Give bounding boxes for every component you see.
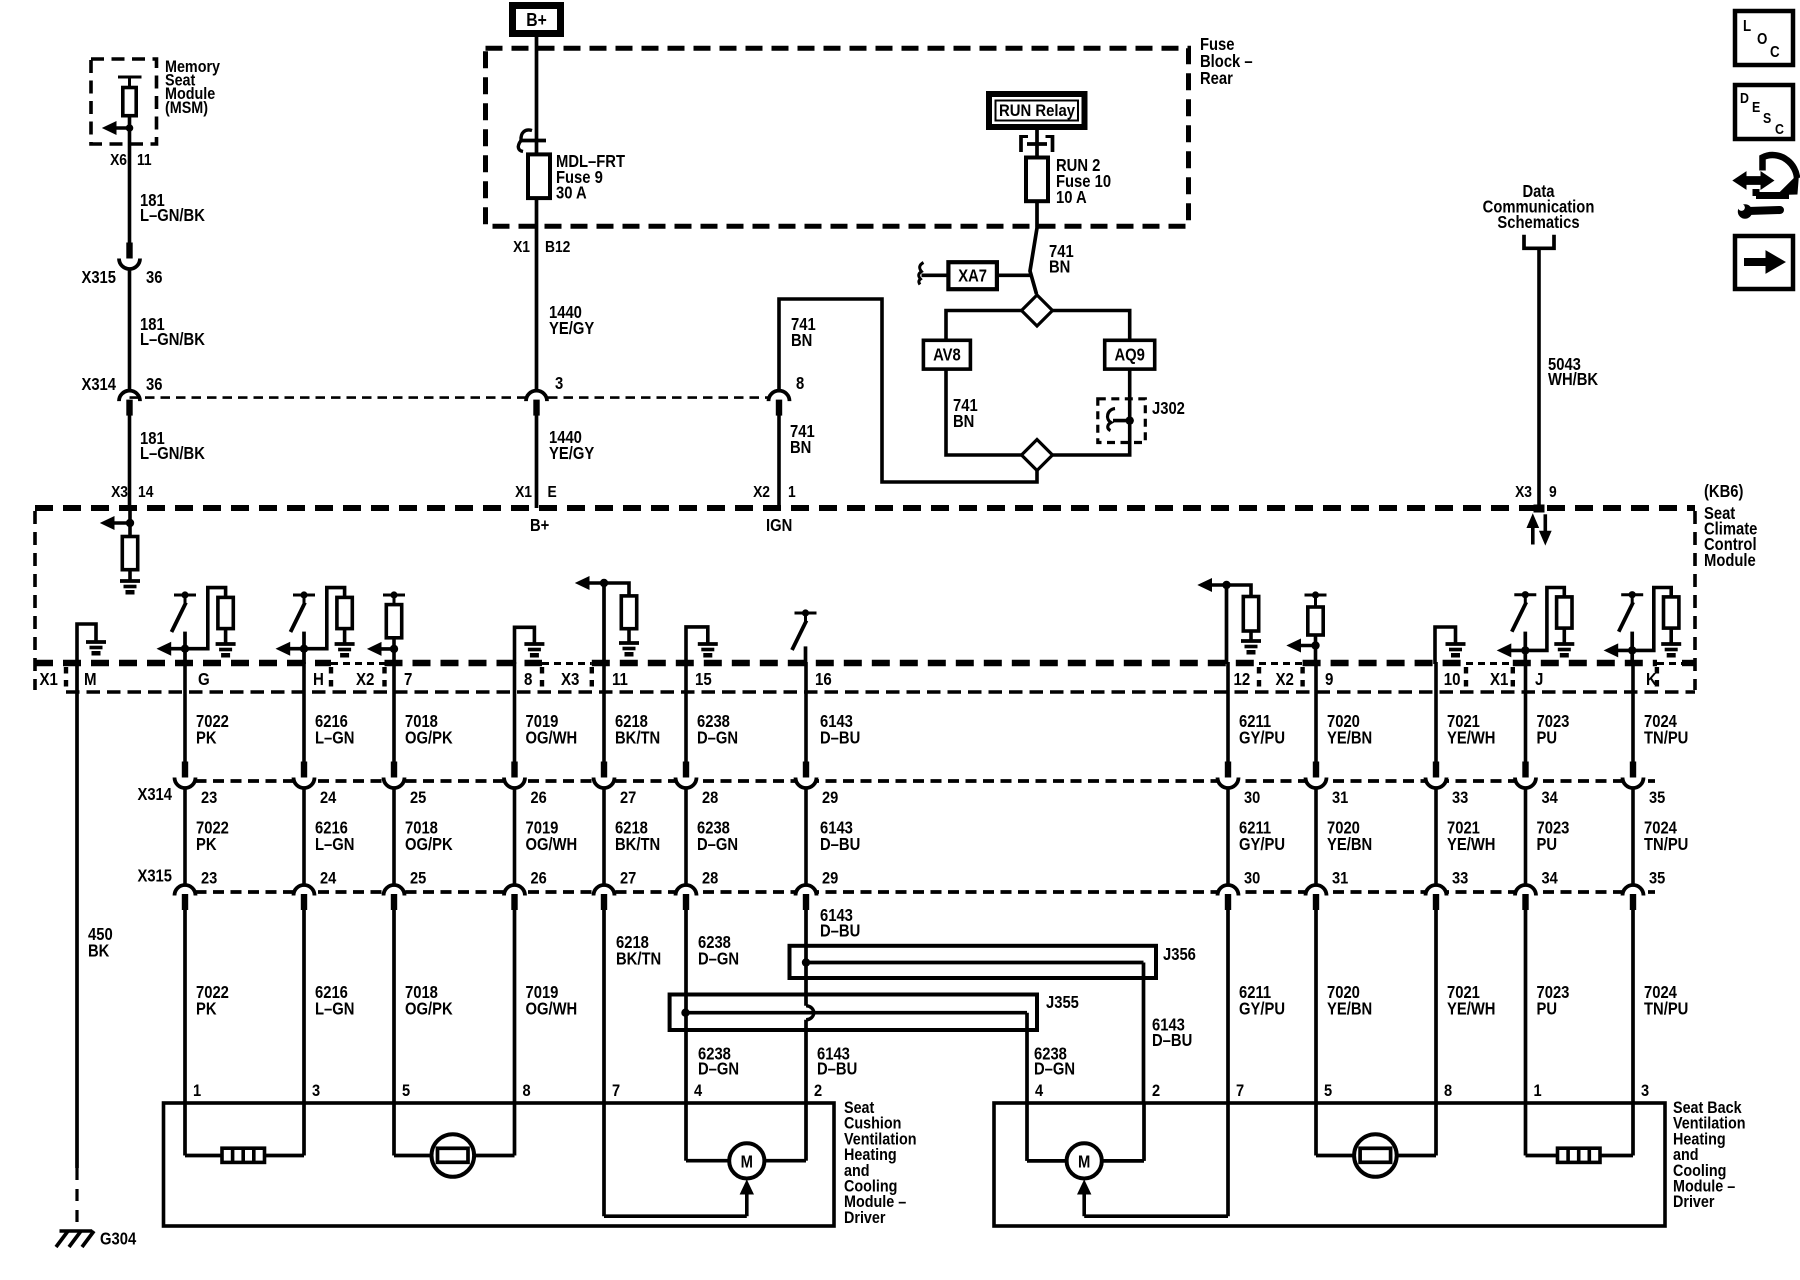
svg-text:7: 7: [612, 1082, 620, 1100]
svg-text:X1: X1: [513, 238, 530, 256]
module internal: memory feed resistor to ground: [128, 508, 132, 537]
svg-text:AV8: AV8: [933, 345, 961, 364]
module internal: pin 7 sense resistor: [383, 594, 405, 597]
connector AQ9: [1105, 340, 1155, 369]
svg-text:2: 2: [814, 1082, 822, 1100]
svg-text:8: 8: [524, 670, 532, 689]
module internal: pin 12 output with resistor: [1225, 585, 1229, 664]
svg-text:X6: X6: [110, 151, 127, 169]
in-line connector pin 8: [769, 391, 790, 402]
wire 7023 PU lower: [1524, 908, 1528, 1103]
svg-text:(KB6): (KB6): [1704, 482, 1743, 501]
svg-text:YE/WH: YE/WH: [1447, 999, 1495, 1018]
svg-text:7: 7: [404, 670, 412, 689]
svg-text:IGN: IGN: [766, 516, 792, 535]
fuse RUN 2 Fuse 10 10 A: [1026, 158, 1048, 202]
svg-text:PU: PU: [1537, 835, 1558, 854]
wire 7023 PU column: [1524, 662, 1528, 762]
svg-text:X2: X2: [753, 483, 770, 501]
Seat Climate Control Module box top edge: [35, 505, 1695, 511]
svg-text:X1: X1: [515, 483, 532, 501]
svg-text:25: 25: [410, 870, 426, 888]
wire 7022 PK column: [183, 662, 187, 762]
module pin band bottom line: [66, 690, 1695, 694]
svg-text:GY/PU: GY/PU: [1239, 999, 1285, 1018]
svg-text:L–GN: L–GN: [315, 835, 354, 854]
seat back temperature sensor: [1314, 1103, 1318, 1156]
svg-text:XA7: XA7: [958, 266, 987, 285]
MSM output arrow: [112, 126, 130, 130]
wire 6211 GY/PU column: [1226, 662, 1230, 762]
module internal: pin 10 ground: [1435, 627, 1456, 664]
cushion heater element: [183, 1103, 187, 1156]
svg-text:OG/WH: OG/WH: [526, 999, 578, 1018]
module internal: pin 15 ground: [686, 627, 708, 664]
wire 7020 YE/BN lower: [1314, 908, 1318, 1103]
svg-text:26: 26: [531, 789, 547, 807]
svg-text:33: 33: [1452, 870, 1468, 888]
svg-text:D: D: [1740, 90, 1749, 106]
svg-text:OG/WH: OG/WH: [526, 728, 578, 747]
svg-text:24: 24: [320, 789, 336, 807]
svg-text:27: 27: [620, 789, 636, 807]
svg-text:E: E: [1752, 99, 1760, 115]
svg-text:E: E: [548, 483, 557, 501]
svg-text:H: H: [313, 670, 324, 689]
option loop left branch wire 741 BN: [946, 311, 1022, 341]
wire 741 BN from fuse 10: [1030, 201, 1037, 294]
svg-text:35: 35: [1649, 789, 1665, 807]
svg-text:14: 14: [138, 483, 154, 501]
svg-text:C: C: [1775, 121, 1784, 137]
relay contact bracket: [1019, 135, 1023, 152]
seat back heater element: [1524, 1103, 1528, 1156]
svg-text:BK/TN: BK/TN: [616, 949, 661, 968]
svg-text:8: 8: [1444, 1082, 1452, 1100]
svg-text:S: S: [1763, 110, 1771, 126]
svg-text:WH/BK: WH/BK: [1548, 370, 1598, 389]
B+ power symbol: [513, 6, 561, 34]
svg-text:X3: X3: [111, 483, 128, 501]
svg-text:OG/PK: OG/PK: [405, 728, 453, 747]
svg-text:PU: PU: [1537, 728, 1558, 747]
svg-text:D–GN: D–GN: [698, 949, 739, 968]
svg-text:BK/TN: BK/TN: [615, 835, 660, 854]
connector X314 pin 23: [182, 762, 188, 779]
connector X314 pin 34: [1522, 762, 1528, 779]
connector AV8: [923, 340, 970, 369]
icon DESC box: [1735, 85, 1793, 139]
svg-text:30: 30: [1244, 789, 1260, 807]
svg-text:PK: PK: [196, 728, 217, 747]
connector X314 pin 33: [1433, 762, 1439, 779]
svg-text:D–GN: D–GN: [697, 835, 738, 854]
svg-text:C: C: [1770, 44, 1780, 61]
svg-text:30: 30: [1244, 870, 1260, 888]
svg-text:36: 36: [146, 268, 163, 287]
svg-text:L–GN/BK: L–GN/BK: [140, 206, 205, 225]
wire 741 BN left branch lower: [946, 369, 1022, 455]
wire 6143 D&#8211;BU column: [804, 662, 808, 762]
svg-text:12: 12: [1234, 670, 1251, 689]
svg-text:YE/WH: YE/WH: [1447, 835, 1495, 854]
seat back motor control wire and arrow: [1226, 1103, 1230, 1216]
svg-text:10 A: 10 A: [1056, 188, 1087, 207]
wire right branch lower: [1053, 369, 1130, 455]
svg-text:31: 31: [1332, 870, 1348, 888]
svg-text:X2: X2: [1276, 670, 1294, 689]
off-page bracket: [1524, 235, 1554, 249]
wire MSM resistor to pin: [128, 116, 132, 157]
svg-text:AQ9: AQ9: [1114, 345, 1144, 364]
svg-text:G: G: [198, 670, 210, 689]
connector X314 pin 25: [391, 762, 397, 779]
MSM internal resistor: [123, 88, 136, 116]
Seat Back Ventilation Heating and Cooling Module box: [994, 1103, 1665, 1226]
svg-text:4: 4: [694, 1082, 702, 1100]
svg-text:1: 1: [1534, 1082, 1542, 1100]
icon forward-nav with wrench: [1733, 155, 1798, 219]
svg-text:X3: X3: [561, 670, 579, 689]
wire 7024 TN/PU lower: [1631, 908, 1635, 1103]
connector X314 pin 28: [683, 762, 689, 779]
serial data arrows: [1531, 525, 1535, 545]
fuse 9 pull tab: [521, 130, 532, 141]
svg-text:J302: J302: [1152, 399, 1185, 418]
svg-text:(MSM): (MSM): [165, 99, 208, 117]
svg-text:OG/PK: OG/PK: [405, 999, 453, 1018]
svg-text:BN: BN: [953, 412, 974, 431]
svg-text:BK/TN: BK/TN: [615, 728, 660, 747]
module internal: pin G switch and resistor: [174, 594, 196, 597]
svg-text:3: 3: [312, 1082, 320, 1100]
svg-text:L–GN: L–GN: [315, 999, 354, 1018]
svg-text:YE/BN: YE/BN: [1327, 999, 1372, 1018]
cushion temperature sensor: [392, 1103, 396, 1156]
connector compartment top lines: [331, 662, 1682, 665]
module box right edge: [1693, 511, 1697, 690]
svg-text:D–BU: D–BU: [820, 728, 860, 747]
svg-text:X2: X2: [356, 670, 374, 689]
cushion motor control wire and arrow: [602, 1103, 606, 1216]
MSM label: [165, 58, 220, 117]
Memory Seat Module (MSM) dashed box: [91, 59, 157, 144]
svg-text:D–BU: D–BU: [1152, 1031, 1192, 1050]
module pin labels: [40, 670, 1658, 689]
svg-text:23: 23: [201, 870, 217, 888]
ground G304: [60, 1229, 93, 1233]
wire 181 L-GN/BK segment 3: [128, 414, 132, 508]
svg-text:27: 27: [620, 870, 636, 888]
svg-text:D–GN: D–GN: [697, 728, 738, 747]
Seat Climate Control Module label: [1704, 504, 1757, 570]
svg-text:Module: Module: [1704, 551, 1756, 570]
wire 181 L-GN/BK segment 2: [128, 269, 132, 391]
svg-text:16: 16: [815, 670, 832, 689]
svg-text:Schematics: Schematics: [1497, 213, 1579, 232]
svg-text:11: 11: [137, 151, 152, 169]
svg-text:X314: X314: [137, 785, 172, 804]
svg-text:25: 25: [410, 789, 426, 807]
svg-text:30 A: 30 A: [556, 183, 587, 202]
svg-text:RUN Relay: RUN Relay: [999, 102, 1075, 120]
Seat Cushion Ventilation Heating and Cooling Module box: [164, 1103, 835, 1226]
svg-text:GY/PU: GY/PU: [1239, 835, 1285, 854]
svg-text:7: 7: [1236, 1082, 1244, 1100]
svg-text:34: 34: [1542, 870, 1558, 888]
Fuse Block - Rear dashed box: [486, 48, 1189, 226]
wire 6211 GY/PU lower: [1226, 908, 1230, 1103]
Seat Back module label: [1673, 1099, 1746, 1211]
svg-text:X1: X1: [1490, 670, 1508, 689]
MSM internal contact bar: [118, 76, 142, 79]
svg-text:15: 15: [695, 670, 712, 689]
svg-text:D–GN: D–GN: [1034, 1059, 1075, 1078]
svg-text:29: 29: [822, 870, 838, 888]
wire 6218 BK/TN lower: [602, 908, 606, 1103]
module internal: pin J switch and resistor: [1514, 593, 1536, 596]
svg-text:G304: G304: [100, 1229, 136, 1248]
connector X314 pin 29: [803, 762, 809, 779]
seat back blower motor: [1025, 1103, 1029, 1161]
module box bottom edge: [35, 660, 1695, 666]
svg-text:Driver: Driver: [1673, 1193, 1714, 1211]
svg-text:23: 23: [201, 789, 217, 807]
svg-text:YE/GY: YE/GY: [549, 319, 594, 338]
svg-text:2: 2: [1152, 1082, 1160, 1100]
wire 6218 BK/TN column: [602, 662, 606, 762]
wire 7021 YE/WH lower: [1434, 908, 1438, 1103]
svg-text:34: 34: [1542, 789, 1558, 807]
svg-text:PK: PK: [196, 835, 217, 854]
svg-text:4: 4: [1035, 1082, 1043, 1100]
svg-text:28: 28: [702, 870, 718, 888]
svg-text:9: 9: [1549, 483, 1557, 501]
svg-text:OG/WH: OG/WH: [526, 835, 578, 854]
svg-text:31: 31: [1332, 789, 1348, 807]
svg-text:Rear: Rear: [1200, 69, 1233, 88]
cushion blower motor: [684, 1103, 688, 1161]
wire 6216 L&#8211;GN lower: [302, 908, 306, 1103]
svg-text:Driver: Driver: [844, 1209, 885, 1227]
option loop right branch: [1053, 311, 1130, 341]
XA7 lead hook: [922, 273, 949, 277]
connector row X315: [178, 890, 1655, 894]
svg-text:10: 10: [1444, 670, 1461, 689]
svg-text:X315: X315: [81, 268, 116, 287]
svg-text:PU: PU: [1537, 999, 1558, 1018]
wire fuse 9 to X1 B12: [535, 198, 539, 390]
wire 7019 OG/WH column: [513, 662, 517, 762]
svg-text:M: M: [84, 670, 97, 689]
svg-text:26: 26: [531, 870, 547, 888]
wire 1440 YE/GY lower: [535, 414, 539, 508]
connector X314 pin 26: [511, 762, 517, 779]
wire 7018 OG/PK lower: [392, 908, 396, 1103]
wire 450 BK: [75, 662, 79, 1168]
svg-text:L–GN: L–GN: [315, 728, 354, 747]
svg-text:5: 5: [402, 1082, 410, 1100]
icon next-page arrow box: [1735, 236, 1793, 289]
wire 741 BN to IGN pin: [779, 299, 1037, 482]
svg-text:YE/BN: YE/BN: [1327, 728, 1372, 747]
module box left edge: [33, 511, 37, 690]
svg-text:TN/PU: TN/PU: [1644, 835, 1688, 854]
svg-text:J355: J355: [1046, 993, 1079, 1012]
pin band separators: [66, 667, 1657, 689]
wire 181 L-GN/BK segment 1: [128, 157, 132, 243]
wire 7020 YE/BN column: [1314, 662, 1318, 762]
svg-text:X3: X3: [1515, 483, 1532, 501]
Fuse Block - Rear label: [1200, 35, 1253, 88]
wire 6143 D&#8211;BU lower: [804, 908, 808, 1006]
svg-text:D–BU: D–BU: [820, 921, 860, 940]
svg-text:GY/PU: GY/PU: [1239, 728, 1285, 747]
connector XA7: [997, 273, 1032, 277]
svg-text:BN: BN: [1049, 257, 1070, 276]
svg-text:YE/GY: YE/GY: [549, 444, 594, 463]
svg-text:L–GN/BK: L–GN/BK: [140, 330, 205, 349]
dashed option wire row: [130, 396, 769, 399]
svg-text:K: K: [1646, 670, 1657, 689]
svg-text:X1: X1: [40, 670, 58, 689]
in-line connector pin 3: [526, 391, 547, 402]
connector X314 pin 31: [1313, 762, 1319, 779]
in-line connector X315 pin 36: [126, 243, 132, 260]
svg-text:M: M: [1078, 1152, 1090, 1171]
svg-text:D–BU: D–BU: [817, 1059, 857, 1078]
svg-text:X315: X315: [137, 866, 172, 885]
module internal: pin 11 output with resistor: [602, 583, 606, 664]
module internal: pin 8 ground: [515, 627, 535, 664]
wire B+ to fuse 9: [535, 37, 539, 155]
svg-text:X314: X314: [81, 375, 116, 394]
svg-text:O: O: [1757, 31, 1767, 48]
svg-text:L: L: [1743, 18, 1751, 35]
splice J302: [1098, 399, 1146, 443]
Data Communication Schematics label: [1483, 182, 1595, 233]
connector row X314: [178, 779, 1655, 783]
svg-text:BN: BN: [791, 331, 812, 350]
svg-text:1: 1: [193, 1082, 201, 1100]
svg-text:B+: B+: [526, 10, 547, 30]
svg-text:M: M: [741, 1152, 753, 1171]
splice J356: [790, 946, 1157, 978]
module internal: pin 9 sense resistor: [1305, 594, 1327, 597]
svg-text:TN/PU: TN/PU: [1644, 999, 1688, 1018]
svg-text:35: 35: [1649, 870, 1665, 888]
wire 6238 D&#8211;GN column: [684, 662, 688, 762]
splice diamond lower: [1022, 440, 1053, 471]
svg-text:28: 28: [702, 789, 718, 807]
splice diamond upper: [1022, 295, 1053, 326]
svg-text:L–GN/BK: L–GN/BK: [140, 444, 205, 463]
svg-text:8: 8: [796, 374, 804, 393]
fuse MDL-FRT Fuse 9 30 A: [528, 154, 550, 198]
svg-text:3: 3: [1641, 1082, 1649, 1100]
connector X314 pin 24: [301, 762, 307, 779]
svg-text:OG/PK: OG/PK: [405, 835, 453, 854]
connector X314 pin 30: [1225, 762, 1231, 779]
svg-text:J: J: [1535, 670, 1543, 689]
svg-text:PK: PK: [196, 999, 217, 1018]
wire 6216 L&#8211;GN column: [302, 662, 306, 762]
wire 5043 WH/BK: [1537, 248, 1541, 508]
svg-text:33: 33: [1452, 789, 1468, 807]
svg-text:36: 36: [146, 375, 163, 394]
svg-text:BK: BK: [88, 941, 110, 960]
svg-text:TN/PU: TN/PU: [1644, 728, 1688, 747]
RUN Relay box: [989, 94, 1085, 127]
svg-text:B12: B12: [545, 238, 570, 256]
svg-text:3: 3: [555, 374, 563, 393]
svg-text:8: 8: [523, 1082, 531, 1100]
Seat Cushion module label: [844, 1099, 917, 1227]
svg-text:D–BU: D–BU: [820, 835, 860, 854]
svg-text:J356: J356: [1163, 945, 1196, 964]
splice J355: [670, 995, 1037, 1031]
svg-text:YE/BN: YE/BN: [1327, 835, 1372, 854]
wire 7024 TN/PU column: [1631, 662, 1635, 762]
connector X314 pin 27: [601, 762, 607, 779]
wire 7018 OG/PK column: [392, 662, 396, 762]
svg-text:24: 24: [320, 870, 336, 888]
svg-text:D–GN: D–GN: [698, 1059, 739, 1078]
svg-text:1: 1: [788, 483, 796, 501]
svg-text:YE/WH: YE/WH: [1447, 728, 1495, 747]
wire 6238 D&#8211;GN lower: [684, 908, 688, 1103]
svg-text:29: 29: [822, 789, 838, 807]
svg-text:5: 5: [1324, 1082, 1332, 1100]
wire 741 BN lower: [777, 414, 781, 508]
module internal: pin 16 switch: [795, 612, 817, 615]
module internal: pin K switch and resistor: [1621, 593, 1643, 596]
connector X314 pin 35: [1630, 762, 1636, 779]
wire 7019 OG/WH lower: [513, 908, 517, 1103]
wire 7022 PK lower: [183, 908, 187, 1103]
module internal: pin M ground: [77, 624, 96, 664]
wire 7021 YE/WH column: [1434, 662, 1438, 762]
svg-text:B+: B+: [530, 516, 549, 535]
svg-text:11: 11: [612, 670, 628, 689]
svg-text:BN: BN: [790, 438, 811, 457]
svg-text:9: 9: [1325, 670, 1333, 689]
icon LOC box: [1735, 11, 1793, 65]
module internal: pin H switch and resistor: [293, 594, 315, 597]
